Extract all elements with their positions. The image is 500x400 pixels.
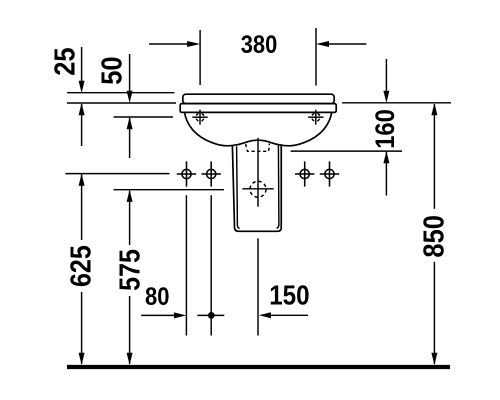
- svg-text:575: 575: [114, 249, 146, 291]
- dim 50 upper leg: [129, 54, 131, 92]
- fixing hole crosshair mid-left: [202, 161, 221, 186]
- extension line rim step right: [342, 102, 451, 104]
- dim 575 upper leg: [129, 191, 131, 245]
- tap hole crosshair right: [308, 110, 323, 125]
- fixing hole crosshair mid-right: [295, 161, 314, 186]
- dim 625 arrow up: [79, 174, 85, 186]
- drain hidden outline (dashed trapezoid): [246, 144, 270, 152]
- extension line fixing holes left: [65, 173, 169, 175]
- dim 25 lower leg: [81, 104, 83, 146]
- fixing hole crosshair far-right: [320, 161, 339, 186]
- dim 160 lower leg: [385, 152, 387, 196]
- dim 25 upper leg: [81, 47, 83, 82]
- drain dashed circle: [250, 181, 266, 197]
- svg-text:25: 25: [48, 47, 81, 75]
- dim 850 arrow up: [431, 103, 437, 115]
- siphon cover outer outline: [232, 144, 281, 231]
- svg-text:850: 850: [417, 215, 450, 258]
- drain horizontal centerline: [242, 188, 273, 190]
- extension line rim top left: [67, 92, 174, 94]
- dim 80 leader and arrow: [141, 314, 175, 316]
- siphon cover inner left edge: [237, 146, 240, 228]
- svg-text:150: 150: [269, 281, 309, 311]
- dim 160 arrow up: [383, 151, 389, 163]
- dim 80/150 shared dot: [208, 312, 215, 319]
- dim 160 arrow down: [383, 91, 389, 103]
- svg-text:380: 380: [241, 31, 277, 59]
- dim 625 lower leg: [81, 292, 83, 364]
- dim 850 upper leg: [433, 104, 435, 209]
- dim 160 upper leg: [385, 59, 387, 92]
- dim 575 arrow down: [127, 353, 133, 365]
- dim 575 lower leg: [129, 296, 131, 364]
- svg-text:160: 160: [371, 109, 401, 149]
- extension line drain flange bottom right: [291, 150, 402, 152]
- extension line tap hole height: [114, 116, 173, 118]
- dim 625 arrow down: [79, 353, 85, 365]
- fixing hole extension vertical left: [185, 195, 187, 335]
- dim 80/150 dot crossline: [197, 314, 224, 316]
- dim 50 arrow down: [127, 91, 133, 103]
- svg-text:80: 80: [145, 283, 169, 311]
- washbasin bowl outline: [185, 112, 332, 145]
- dim 380 extension line left: [199, 30, 201, 85]
- dim 380 arrow right: [329, 43, 366, 45]
- dim 150 arrow and leader: [271, 314, 308, 316]
- fixing hole extension vertical right: [210, 195, 212, 335]
- dim 25 arrow up: [79, 103, 85, 115]
- dim 575 arrow up: [127, 190, 133, 202]
- dim 625 upper leg: [81, 175, 83, 241]
- fixing hole crosshair far-left: [177, 161, 196, 186]
- extension line rim step left: [67, 102, 176, 104]
- dim 380 extension line right: [315, 28, 317, 86]
- tap hole crosshair left: [192, 110, 207, 125]
- siphon cover inner right edge: [277, 145, 279, 229]
- dim 850 lower leg: [433, 262, 435, 364]
- svg-text:50: 50: [95, 56, 128, 84]
- washbasin rim top bar: [183, 94, 334, 103]
- floor line: [67, 365, 450, 369]
- drain vertical centerline lower segment: [257, 238, 259, 335]
- dim 50 lower leg: [129, 118, 131, 158]
- dim 50 arrow up: [127, 117, 133, 129]
- drain vertical centerline upper segment: [257, 138, 259, 207]
- dim 25 arrow down: [79, 81, 85, 93]
- svg-text:625: 625: [65, 245, 97, 287]
- washbasin rim lower bar: [180, 104, 336, 113]
- dim 380 arrow left: [149, 43, 188, 45]
- dim 850 arrow down: [431, 353, 437, 365]
- extension line drain height: [114, 189, 225, 191]
